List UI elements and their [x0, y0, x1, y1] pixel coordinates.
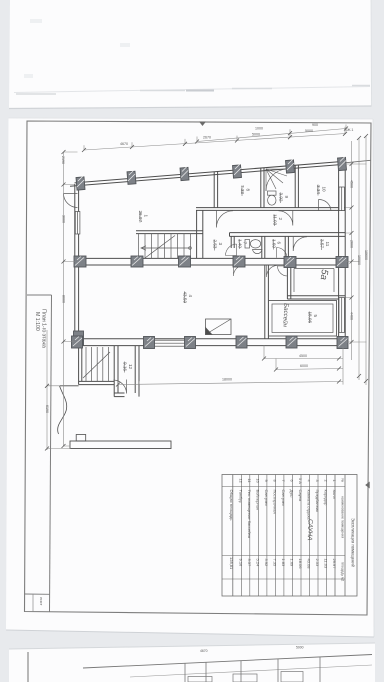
svg-text:САУНА: САУНА	[306, 519, 314, 541]
svg-text:11.03: 11.03	[324, 559, 329, 569]
column slanted wall 1	[76, 177, 85, 190]
svg-text:площадь м2: площадь м2	[341, 562, 345, 581]
column left wall lower	[74, 331, 84, 345]
svg-text:10: 10	[322, 187, 327, 193]
room 7 label	[237, 239, 247, 249]
svg-text:43.59: 43.59	[182, 292, 187, 304]
room 8 label	[240, 185, 251, 196]
svg-text:3: 3	[315, 480, 320, 482]
svg-text:43.08: 43.08	[307, 559, 312, 570]
window right wall upper	[339, 187, 344, 211]
outside stair bottom wall	[79, 380, 115, 382]
column hatch lines	[73, 157, 348, 347]
svg-text:9.16: 9.16	[122, 362, 127, 371]
room 4 label	[182, 292, 193, 304]
door W3 opening 1	[233, 265, 244, 276]
room 12 label	[122, 362, 133, 373]
stair right wall	[196, 210, 198, 258]
svg-text:1.83: 1.83	[281, 559, 286, 568]
corridor wall W1	[196, 207, 345, 209]
svg-text:11.03: 11.03	[272, 214, 277, 226]
svg-text:9.16: 9.16	[238, 559, 243, 568]
slanted wall thin extension right	[345, 160, 371, 163]
room 9/10 divider	[294, 165, 296, 208]
table row names	[238, 490, 337, 539]
table outline	[222, 475, 357, 597]
column slanted wall 6	[338, 157, 347, 170]
svg-text:9: 9	[284, 196, 289, 199]
main sheet bottom edge	[6, 630, 374, 637]
svg-text:Бойлерная: Бойлерная	[255, 490, 260, 510]
table header band line	[334, 475, 336, 597]
svg-text:Бассейн: Бассейн	[281, 303, 289, 328]
column W4 4	[236, 336, 247, 348]
svg-text:6: 6	[289, 480, 294, 482]
dim tick marks	[45, 127, 368, 451]
room 10 label	[316, 185, 327, 196]
svg-text:№: №	[341, 479, 345, 483]
slanted top exterior wall inner line	[75, 161, 346, 183]
room 3 label	[212, 240, 223, 251]
column W3 2	[131, 256, 143, 267]
outside stair treads	[86, 347, 108, 381]
door room 7	[225, 244, 236, 256]
svg-text:1.40: 1.40	[237, 239, 242, 248]
svg-text:29.97: 29.97	[332, 559, 337, 570]
break squiggle line	[58, 386, 67, 434]
main sheet right edge	[373, 119, 374, 637]
svg-text:7.33: 7.33	[240, 185, 245, 194]
svg-text:3: 3	[218, 243, 223, 246]
top page (previous sheet, partial)	[9, 0, 372, 109]
table header texts	[341, 479, 345, 582]
main sheet paper	[6, 118, 374, 637]
spiral stair fan room 9	[266, 169, 288, 191]
svg-text:1.69: 1.69	[271, 239, 276, 248]
room 4/5 divider wall	[264, 265, 266, 339]
window right wall lower	[339, 298, 344, 333]
main stair direction arrow	[141, 246, 191, 250]
door room 11	[293, 237, 307, 251]
sink room 7	[253, 250, 263, 254]
svg-text:1000: 1000	[255, 127, 263, 131]
svg-text:12: 12	[238, 479, 243, 483]
svg-text:Экспликация помещений: Экспликация помещений	[351, 518, 356, 568]
drawing frame	[25, 121, 372, 615]
svg-text:3.57: 3.57	[319, 239, 324, 248]
svg-text:План 1-го этажа: План 1-го этажа	[41, 309, 47, 348]
window left wall	[75, 212, 80, 235]
room 8/9 divider	[260, 168, 262, 208]
room 7 left wall stub	[230, 236, 232, 248]
stamp divider	[25, 593, 50, 595]
svg-text:8: 8	[272, 480, 277, 482]
top page faint frame line	[14, 87, 370, 93]
slanted top exterior wall outer line	[70, 164, 345, 186]
sauna 5A bottom wall	[287, 295, 345, 297]
svg-text:2.53: 2.53	[315, 559, 320, 568]
vestibule left wall	[113, 346, 115, 397]
right dim line 1	[351, 141, 353, 360]
svg-text:2: 2	[324, 480, 329, 482]
svg-text:5 А: 5 А	[298, 478, 303, 484]
svg-text:18.06: 18.06	[307, 312, 312, 324]
room 6 label	[271, 239, 281, 250]
room 9 label	[278, 193, 289, 204]
top dim line secondary	[197, 129, 346, 142]
bottom page window rects	[188, 672, 303, 682]
pool inner	[272, 304, 333, 333]
ramp box room 4	[206, 319, 232, 335]
svg-text:Общая площадь: Общая площадь	[229, 490, 234, 521]
bottom page dim texts	[200, 646, 304, 654]
svg-text:2600: 2600	[349, 240, 353, 248]
column W3 6	[336, 257, 348, 268]
svg-text:11: 11	[325, 242, 330, 247]
room 1 label	[138, 211, 149, 223]
table title line	[344, 475, 346, 597]
svg-text:лист: лист	[39, 597, 44, 606]
window bottom wall ledge	[146, 340, 189, 346]
svg-text:Сан.узел: Сан.узел	[264, 490, 269, 507]
bottom dim line 2	[276, 369, 343, 370]
svg-text:5000: 5000	[296, 646, 304, 650]
column W3 4	[233, 256, 245, 267]
frame fold mark top	[199, 122, 206, 127]
svg-text:4670: 4670	[200, 649, 208, 653]
svg-text:26.97: 26.97	[138, 211, 143, 223]
porch slab	[70, 441, 171, 449]
bottom page second line	[130, 665, 372, 677]
top dim extension ticks	[84, 125, 346, 151]
svg-text:7: 7	[281, 480, 286, 482]
bottom dim line 3 overall	[118, 382, 343, 385]
svg-text:Душ: Душ	[289, 490, 294, 498]
svg-text:наименование помещения: наименование помещения	[341, 496, 345, 538]
title box top line	[27, 294, 52, 296]
wall W3	[76, 257, 345, 259]
main stair diagonal cut	[145, 236, 175, 259]
svg-text:900: 900	[312, 123, 318, 127]
svg-text:10000: 10000	[357, 255, 361, 265]
svg-text:2190: 2190	[61, 156, 65, 164]
svg-text:5: 5	[313, 315, 318, 318]
svg-text:1.69: 1.69	[289, 559, 294, 568]
column W4 1	[72, 336, 83, 348]
svg-text:Предбанник: Предбанник	[315, 490, 320, 513]
door W3 opening 2 / room 4	[266, 265, 278, 277]
svg-text:Тамбур: Тамбур	[238, 490, 243, 504]
column W4 6	[337, 337, 348, 349]
main sheet top edge	[9, 118, 374, 119]
svg-text:Сан.узел: Сан.узел	[281, 490, 286, 507]
top dim line main	[84, 134, 346, 151]
bottom wall W4	[76, 338, 345, 340]
column slanted wall 4	[233, 165, 242, 178]
svg-text:3000: 3000	[61, 215, 65, 223]
svg-text:4670: 4670	[120, 142, 128, 146]
door room 10	[319, 199, 332, 211]
svg-text:1: 1	[332, 480, 337, 482]
sauna 5A left wall	[286, 265, 288, 299]
svg-text:2670: 2670	[203, 136, 211, 140]
bottom page top edge	[9, 643, 375, 649]
svg-text:4400: 4400	[349, 312, 353, 320]
dim texts vertical left/right	[45, 156, 368, 413]
svg-text:Сауна: Сауна	[298, 490, 303, 502]
porch step small	[76, 435, 86, 442]
column W3 5	[284, 257, 296, 268]
door sauna 5A	[278, 266, 288, 276]
table row lines	[326, 475, 328, 597]
right dim line 3	[365, 136, 367, 385]
pool outer	[269, 301, 337, 337]
svg-text:3.92: 3.92	[278, 193, 283, 202]
title box vertical line	[50, 295, 52, 612]
bottom page main slanted line	[83, 655, 372, 669]
svg-text:2: 2	[278, 218, 283, 221]
entrance door top-left	[64, 194, 78, 208]
top page faint marks	[16, 86, 370, 95]
vestibule door	[114, 380, 127, 394]
svg-text:18600: 18600	[364, 250, 368, 260]
left dim line outer	[46, 330, 48, 450]
outside stair left wall	[78, 346, 80, 385]
dim texts top	[120, 123, 318, 382]
rooms 7/6 divider	[261, 236, 263, 258]
bottom page frame left line	[27, 652, 29, 682]
svg-text:4500: 4500	[299, 354, 307, 358]
rooms 6/11 divider	[284, 236, 286, 258]
toilet room 7	[245, 240, 250, 249]
sauna bench lines	[294, 269, 334, 293]
svg-text:Комната отдыха: Комната отдыха	[307, 490, 312, 521]
column W4 3	[185, 337, 196, 349]
bottom page wall stubs	[185, 657, 320, 682]
left dim connectors	[47, 152, 78, 449]
frame fold mark right	[365, 482, 370, 489]
svg-text:Тех. помещение бассейна: Тех. помещение бассейна	[247, 490, 252, 539]
left exterior wall	[74, 184, 76, 341]
table row numbers	[238, 478, 337, 484]
main stair treads	[139, 234, 191, 259]
column slanted wall 3	[180, 167, 189, 180]
svg-text:12: 12	[128, 364, 133, 370]
svg-text:6190: 6190	[45, 405, 49, 413]
svg-text:11: 11	[247, 479, 252, 483]
stamp inner line	[32, 594, 34, 612]
outside stair diagonal	[83, 352, 110, 378]
svg-text:М 1:100: М 1:100	[34, 312, 40, 331]
svg-text:18.06: 18.06	[298, 559, 303, 570]
right exterior wall	[338, 161, 340, 346]
svg-text:5.24: 5.24	[255, 559, 260, 568]
svg-text:128,81: 128,81	[229, 557, 234, 570]
room 2 label	[272, 214, 283, 226]
svg-text:8000: 8000	[61, 295, 65, 303]
svg-text:Холл: Холл	[332, 490, 337, 500]
column W4 2	[144, 337, 155, 349]
svg-text:3.92: 3.92	[264, 559, 269, 568]
table total row line	[232, 475, 234, 597]
top page bottom edge shadow	[9, 106, 372, 109]
svg-text:8: 8	[246, 189, 251, 192]
right dim line 2	[358, 138, 360, 380]
svg-text:2.53: 2.53	[212, 240, 217, 249]
svg-text:Постирочная: Постирочная	[272, 490, 277, 514]
vestibule right wall	[134, 346, 136, 393]
table row areas	[238, 559, 337, 570]
svg-text:3.34: 3.34	[316, 185, 321, 194]
bottom page right gray edge	[375, 643, 384, 682]
column slanted wall 2	[127, 171, 136, 184]
wall W2	[230, 232, 346, 234]
room 5 label	[307, 312, 318, 324]
toilet room 9	[268, 191, 277, 195]
svg-text:5а: 5а	[318, 269, 330, 281]
table column lines	[222, 486, 345, 488]
column W3 3	[179, 256, 191, 267]
bottom page paper	[9, 643, 375, 682]
bottom dim connectors	[118, 346, 343, 385]
svg-text:4: 4	[188, 295, 193, 298]
left dim line inner	[63, 152, 65, 446]
vestibule bottom wall	[114, 392, 124, 394]
top page right edge	[370, 0, 373, 106]
column W3 1	[74, 256, 86, 267]
door in W1 right	[279, 211, 293, 226]
svg-text:6000: 6000	[300, 364, 308, 368]
porch edge line	[60, 385, 79, 387]
svg-text:Коридор: Коридор	[324, 490, 329, 507]
svg-text:9: 9	[264, 480, 269, 482]
door room 3 from corridor	[216, 211, 233, 228]
column slanted wall 5	[286, 160, 295, 173]
right dim connectors	[346, 164, 367, 342]
svg-text:3.57: 3.57	[247, 559, 252, 568]
room 8 left wall	[213, 172, 215, 208]
room 11 label	[319, 239, 330, 250]
svg-text:5000: 5000	[305, 129, 313, 133]
column W4 5	[286, 336, 297, 348]
bottom dim line 1	[264, 358, 343, 360]
svg-text:5000: 5000	[252, 133, 260, 137]
stair top wall	[136, 230, 203, 232]
svg-text:4500: 4500	[349, 180, 353, 188]
door room 6 lower	[277, 247, 288, 257]
svg-text:18000: 18000	[222, 378, 232, 382]
svg-text:7.35: 7.35	[272, 559, 277, 568]
svg-text:1: 1	[144, 215, 149, 218]
